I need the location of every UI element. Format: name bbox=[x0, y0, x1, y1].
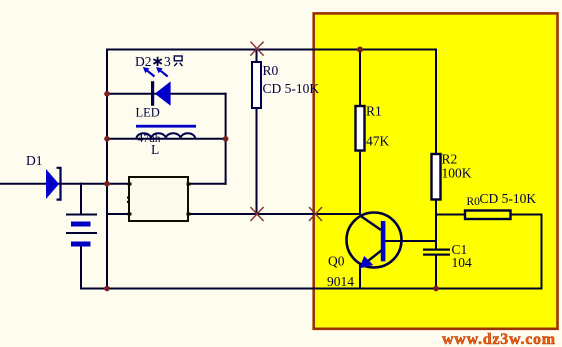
svg-text:100K: 100K bbox=[442, 166, 472, 181]
svg-text:3: 3 bbox=[164, 54, 171, 69]
svg-text:D1: D1 bbox=[26, 153, 43, 168]
svg-text:Q0: Q0 bbox=[328, 254, 345, 269]
svg-text:L: L bbox=[151, 142, 159, 157]
svg-text:R0: R0 bbox=[467, 196, 481, 208]
svg-text:R2: R2 bbox=[442, 152, 458, 167]
svg-text:R0: R0 bbox=[263, 63, 279, 78]
svg-text:D2: D2 bbox=[135, 54, 152, 69]
svg-text:47K: 47K bbox=[366, 134, 390, 149]
svg-text:CD 5-10K: CD 5-10K bbox=[480, 191, 537, 206]
svg-text:CD 5-10K: CD 5-10K bbox=[263, 81, 320, 96]
svg-text:LED: LED bbox=[136, 106, 160, 120]
svg-text:R1: R1 bbox=[366, 104, 382, 119]
svg-text:9014: 9014 bbox=[327, 274, 354, 289]
svg-text:www.dz3w.com: www.dz3w.com bbox=[442, 331, 556, 347]
svg-text:104: 104 bbox=[452, 255, 473, 270]
